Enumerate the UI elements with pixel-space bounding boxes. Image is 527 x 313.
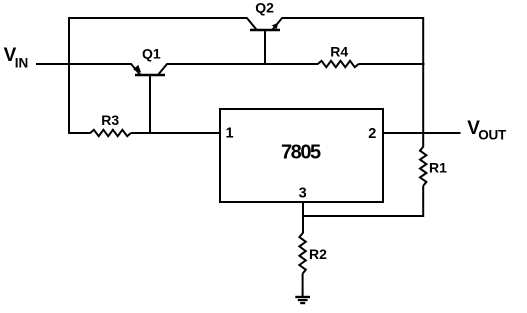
- svg-text:IN: IN: [15, 55, 29, 70]
- svg-text:R2: R2: [309, 246, 327, 262]
- svg-text:7805: 7805: [281, 142, 321, 164]
- svg-text:Q2: Q2: [255, 0, 274, 16]
- svg-text:R3: R3: [101, 112, 119, 128]
- svg-text:1: 1: [226, 126, 234, 142]
- svg-text:3: 3: [299, 186, 307, 202]
- svg-text:R4: R4: [330, 43, 348, 59]
- svg-text:2: 2: [368, 126, 376, 142]
- svg-text:OUT: OUT: [478, 128, 507, 143]
- svg-text:Q1: Q1: [142, 45, 161, 61]
- svg-text:R1: R1: [429, 159, 447, 175]
